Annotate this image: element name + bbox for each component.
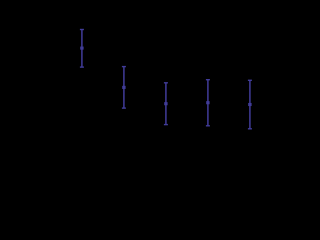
errorbar point 1 — [80, 30, 84, 68]
errorbar chart on black background — [0, 0, 273, 172]
errorbar point 4 — [206, 80, 210, 126]
errorbar point 2 — [122, 67, 126, 109]
errorbar point 3 — [164, 83, 168, 125]
errorbar point 5 — [248, 80, 252, 129]
